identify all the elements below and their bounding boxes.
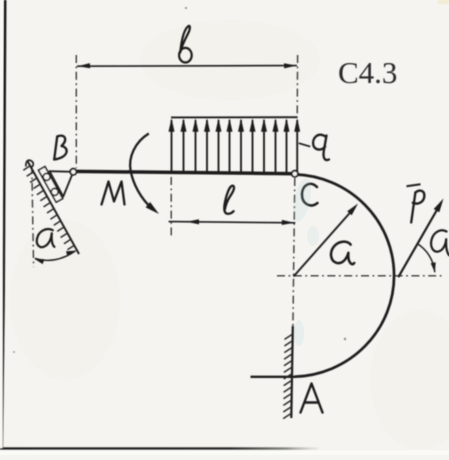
svg-text:C4.3: C4.3 xyxy=(338,55,397,90)
